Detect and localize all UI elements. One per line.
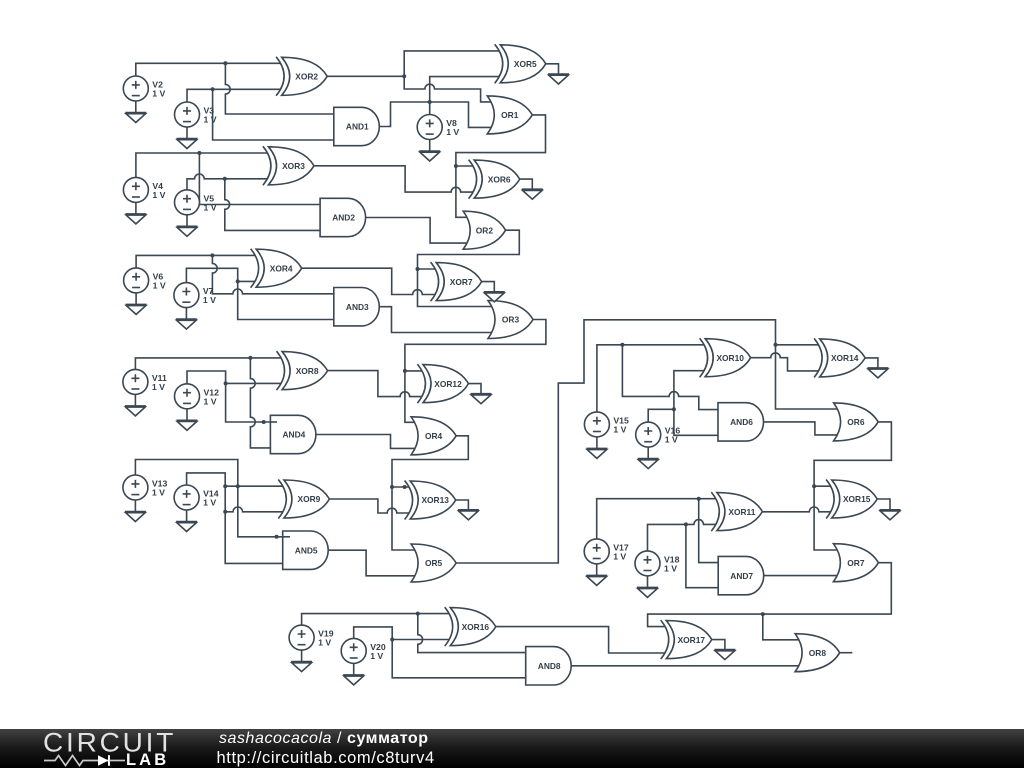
junction dot OR4 net [390,485,394,489]
wire junction to AND1 input B [213,89,334,140]
wire junction to AND1 input A (hops over V3 wire) [225,63,333,114]
OR gate OR4 [411,417,456,455]
wire junction down to AND8 input A (hops over V20 net) [418,614,526,653]
ground (V7) [176,319,197,329]
wire V11 top to XOR8 input A [135,358,281,370]
junction dot V3 net [211,87,215,91]
wire XOR11 output to XOR15 input B (hops over OR6 net) [762,507,830,512]
wire AND1 output to OR1 input B [379,102,491,127]
junction dot XOR2 output [402,74,406,78]
wire junction down to AND5 input B [225,512,283,564]
voltage source V13 (1 V) [123,475,168,500]
voltage source V6 (1 V) [124,268,166,293]
wire junction down to OR4 input A [405,371,415,422]
ground (V6) [126,304,147,314]
svg-text:AND1: AND1 [346,122,369,132]
wire XOR8 output to XOR12 input B (hops over OR3 net) [328,371,422,397]
svg-text:XOR15: XOR15 [843,494,871,504]
voltage source V15 (1 V) [584,412,629,437]
junction dot AND5 input A terminal [275,535,279,539]
AND gate AND7 [718,556,763,594]
wire V16 top to junction [648,409,674,422]
ground (V17) [586,575,607,585]
wire V2 top to XOR2 input A [136,63,281,76]
svg-text:AND2: AND2 [332,213,355,223]
svg-text:XOR5: XOR5 [514,59,537,69]
wire junction to XOR9 input B (hops over V13 net) [225,507,283,512]
svg-text:1 V: 1 V [152,190,165,200]
wire XOR16 output to XOR17 input B [496,627,665,653]
OR gate OR5 [411,544,456,582]
ground (XOR12 output) [471,394,492,404]
svg-text:OR7: OR7 [847,558,865,568]
svg-text:AND4: AND4 [282,430,305,440]
ground (V19) [291,662,312,672]
ground (XOR13 output) [458,510,479,520]
svg-text:OR5: OR5 [425,558,443,568]
OR gate OR6 [834,403,879,441]
AND gate AND8 [526,647,572,685]
XOR gate XOR8 [277,351,328,390]
svg-text:1 V: 1 V [665,435,678,445]
wire XOR14 output to ground [865,358,878,368]
ground (XOR7 output) [484,292,505,302]
wire OR5 output up to right section [456,320,775,563]
svg-text:XOR16: XOR16 [462,622,490,632]
svg-text:AND7: AND7 [730,571,753,581]
wire V18 top to XOR11 input B (hops over V17 net) [648,520,716,551]
ground (V2) [125,113,146,123]
wire V8 bottom to ground [429,140,431,152]
svg-text:1 V: 1 V [664,563,677,573]
AND gate AND3 [334,288,379,326]
XOR gate XOR2 [276,57,327,96]
wire XOR2 output to XOR5 input A [327,75,404,77]
OR gate OR1 [487,96,532,134]
svg-text:XOR4: XOR4 [270,263,293,273]
wire junction down to AND5 input A [238,486,290,537]
footer bar [0,729,1024,768]
ground (V11) [125,406,146,416]
XOR gate XOR4 [251,249,302,288]
wire junction down to AND6 input B [674,409,718,435]
AND gate AND6 [718,403,764,441]
ground (XOR17 output) [714,650,735,660]
wire junction down to AND6 input A (hops over V16 net) [622,345,718,410]
wire AND5 output to OR5 input B [328,550,415,576]
svg-text:XOR2: XOR2 [295,72,318,82]
wire V5 bottom to ground [186,215,188,227]
wire V15 top to XOR10 input A [597,345,704,412]
ground (V8) [419,151,440,161]
junction dot V12 net [224,381,228,385]
junction dot OR2 net at XOR7 input [416,267,420,271]
wire junction to XOR16 input B [392,639,449,641]
svg-text:XOR7: XOR7 [450,277,473,287]
schematic URL [217,749,435,768]
author / title text [219,730,429,748]
svg-text:OR2: OR2 [476,225,494,235]
wire junction down to OR7 input A [814,486,837,550]
junction dot V15 net [620,343,624,347]
svg-text:XOR14: XOR14 [831,353,859,363]
voltage source V19 (1 V) [289,625,334,650]
wire V8 junction up to XOR5 input B [430,77,500,115]
ground (V3) [177,139,198,149]
junction dot carry net at XOR14 [774,343,778,347]
svg-text:1 V: 1 V [204,115,217,125]
wire junction down to OR8 input A [763,614,799,640]
wire OR1 output down-left to XOR6 input A [456,115,546,166]
XOR gate XOR17 [661,620,712,659]
junction dot V7 net [236,279,240,283]
ground (XOR15 output) [880,510,901,520]
voltage source V4 (1 V) [123,177,165,202]
svg-text:1 V: 1 V [153,280,166,290]
CircuitLab logo waveform glyph (resistor + diode) [42,752,132,768]
wire down to OR1 input A (hops over V8 wire) [404,76,491,102]
wire OR4 output around to XOR13 input A [392,436,468,487]
wire XOR5 output to ground [546,64,559,74]
wire junction down to OR2 input A [456,166,467,217]
wire V17 top to XOR11 input A [597,499,716,539]
wire XOR7 output to ground [482,282,495,292]
ground (V12) [177,420,198,430]
ground (V5) [177,226,198,236]
svg-text:1 V: 1 V [203,498,216,508]
ground (V15) [586,448,607,458]
OR gate OR7 [833,544,878,582]
wire OR8 output [840,652,853,654]
XOR gate XOR13 [405,481,456,520]
ground (V4) [125,214,146,224]
wire junction down to AND4 input A [226,383,277,422]
OR gate OR8 [795,634,840,672]
wire junction to XOR8 input B [226,382,281,384]
wire junction down to AND2 input A [199,153,320,205]
svg-text:OR3: OR3 [502,315,520,325]
XOR gate XOR7 [431,262,482,301]
wire OR6 output around to XOR15 input A [814,422,891,486]
ground (V13) [125,512,146,522]
wire V20 top to junction [354,627,393,640]
svg-text:AND3: AND3 [346,302,369,312]
CircuitLab logo text LAB [126,751,169,768]
AND gate AND5 [283,531,329,569]
voltage source V20 (1 V) [341,638,386,663]
wire V12 bottom to ground [186,409,188,421]
XOR gate XOR11 [711,492,762,531]
svg-text:1 V: 1 V [204,202,217,212]
junction dot V4 net [197,151,201,155]
wire V5 top to XOR3 input B (hops over V4 wire) [187,174,267,190]
svg-text:OR4: OR4 [425,431,443,441]
voltage source V5 (1 V) [175,190,217,215]
junction dot OR1 net at XOR6 input [454,164,458,168]
wire XOR3 output to XOR6 input B (hops over OR1 net) [314,166,473,192]
wire AND7 output to OR7 input B [764,575,837,577]
wire AND4 output to OR4 input B [316,435,415,449]
OR gate OR2 [463,211,505,249]
ground (V14) [176,522,197,532]
voltage source V18 (1 V) [635,551,680,576]
AND gate AND2 [320,198,366,236]
svg-text:XOR9: XOR9 [297,494,320,504]
svg-text:1 V: 1 V [613,551,626,561]
wire AND2 output to OR2 input B [366,218,467,244]
svg-text:1 V: 1 V [203,295,216,305]
wire V19 top to XOR16 input A [302,614,450,626]
XOR gate XOR12 [417,364,468,403]
junction dot V16 net [672,407,676,411]
junction dot V14 net lower [223,510,227,514]
AND gate AND4 [270,415,316,453]
junction dot V18 net [684,522,688,526]
XOR gate XOR14 [814,338,865,377]
voltage source V2 (1 V) [123,76,165,101]
wire junction to XOR14 input A [776,344,819,346]
wire AND8 output to OR8 input B [571,665,799,667]
wire junction down to AND3 input A (hops over V7 wire and V7 net) [212,255,333,293]
ground (V16) [638,459,659,469]
wire XOR9 output to XOR13 input B (hops over OR4 net) [329,499,409,513]
ground (V20) [343,675,364,685]
XOR gate XOR5 [495,44,546,83]
wire stub AND4 input A terminal [270,421,277,423]
wire V14 bottom to ground [186,510,188,522]
wire junction to XOR9 input A [225,485,283,487]
svg-text:1 V: 1 V [152,89,165,99]
wire V20 bottom to ground [353,663,355,675]
junction dot V6 net [210,253,214,257]
wire junction down to AND2 input B (hops over V4-AND2 wire) [225,179,320,231]
junction dot V14 net upper [223,484,227,488]
junction dot V17 net [697,497,701,501]
wire V13 bottom to ground [134,500,136,512]
wire V14 top to junction [187,473,226,486]
svg-text:XOR17: XOR17 [678,635,706,645]
junction dot V11 net [248,356,252,360]
XOR gate XOR6 [469,160,520,199]
svg-text:XOR3: XOR3 [282,161,305,171]
OR gate OR3 [488,301,533,339]
wire junction down to OR5 input A [392,487,415,550]
wire V3 top to XOR2 input B [187,89,281,102]
svg-text:1 V: 1 V [204,396,217,406]
ground (XOR6 output) [522,189,543,199]
junction dot OR6 net at XOR15 [812,484,816,488]
wire XOR15 output to ground [877,499,890,510]
voltage source V7 (1 V) [174,283,216,308]
voltage source V8 (1 V) [417,115,459,140]
wire XOR6 output to ground [520,179,533,189]
wire junction down to AND8 input B [392,640,526,678]
wire V11 bottom to ground [134,394,136,406]
wire V13 top to junction [135,460,237,487]
wire V6 top to XOR4 input A [136,255,255,268]
wire XOR12 output to ground [469,384,482,394]
svg-text:XOR10: XOR10 [716,353,744,363]
junction dot OR7 net [761,612,765,616]
XOR gate XOR9 [278,480,329,519]
wire junction down to AND7 input A [699,499,719,563]
svg-text:OR6: OR6 [847,417,865,427]
svg-text:XOR12: XOR12 [434,379,462,389]
wire junction down to OR3 input A [418,269,492,307]
AND gate AND1 [334,107,380,145]
wire XOR17 output to ground [712,640,725,650]
wire V15 bottom to ground [596,437,598,449]
junction dot AND4 input A terminal [262,420,266,424]
junction dot V2 net [223,61,227,65]
voltage source V11 (1 V) [123,369,167,394]
wire OR3 output around to XOR12 input A [405,320,546,371]
wire XOR13 output to ground [456,500,469,510]
wire V4 top to XOR3 input A [136,153,268,177]
wire V7 top to XOR4 input B [186,268,255,282]
wire V3 bottom to ground [186,127,188,139]
svg-text:AND5: AND5 [295,545,318,555]
wire AND6 output to OR6 input B [763,422,837,435]
wire V4 bottom to ground [135,202,137,214]
junction dot V20 net [390,638,394,642]
svg-text:XOR6: XOR6 [488,174,511,184]
svg-text:1 V: 1 V [152,488,165,498]
wire V19 bottom to ground [301,650,303,662]
wire up to XOR5 input A [404,51,499,76]
svg-text:1 V: 1 V [446,127,459,137]
svg-text:1 V: 1 V [318,638,331,648]
wire XOR10 output to XOR14 input B (hops over carry net) [751,353,819,371]
wire XOR4 output to XOR7 input B (hops over OR2 net) [302,268,435,294]
wire AND3 output to OR3 input B [379,307,491,333]
XOR gate XOR16 [445,607,496,646]
wire V17 bottom to ground [596,564,598,576]
ground (V18) [637,587,658,597]
wire V16 bottom to ground [647,447,649,459]
wire V7 bottom to ground [185,308,187,320]
svg-text:1 V: 1 V [613,424,626,434]
wire junction down to AND3 input B [238,281,334,319]
svg-text:AND6: AND6 [730,417,753,427]
wire junction down [224,486,226,512]
junction dot V5 net [223,177,227,181]
svg-text:OR1: OR1 [501,110,519,120]
svg-text:OR8: OR8 [809,648,827,658]
XOR gate XOR10 [700,338,751,377]
CircuitLab logo text CIRCUIT [43,727,176,758]
junction dot V19 net [416,612,420,616]
svg-text:XOR8: XOR8 [296,366,319,376]
svg-text:XOR11: XOR11 [728,507,755,517]
wire OR2 output around to XOR7 input A [418,230,520,269]
svg-text:1 V: 1 V [152,382,165,392]
voltage source V14 (1 V) [174,485,219,510]
junction dot XOR13 input A terminal [403,485,407,489]
junction dot V8 net [428,100,432,104]
svg-text:AND8: AND8 [538,661,561,671]
wire junction down to AND4 input B (hops over V12 wires) [250,358,270,448]
wire junction up to XOR10 input B [674,371,704,410]
wire stub AND5 input A terminal [283,536,290,538]
voltage source V3 (1 V) [175,102,217,127]
wire junction down to AND7 input B [686,524,718,587]
wire V18 bottom to ground [647,576,649,588]
svg-text:XOR13: XOR13 [421,495,449,505]
wire junction down to OR6 input A [776,345,838,409]
svg-text:1 V: 1 V [370,651,383,661]
wire V6 bottom to ground [135,293,137,305]
voltage source V12 (1 V) [175,384,220,409]
ground (XOR5 output) [548,74,569,84]
wire OR7 output down-left to XOR17 input A [648,563,892,627]
junction dot V13 net [236,484,240,488]
voltage source V16 (1 V) [636,422,681,447]
XOR gate XOR15 [826,480,877,519]
wire V12 top to junction [187,371,226,384]
ground (XOR14 output) [867,368,888,378]
wire V2 bottom to ground [135,101,137,113]
XOR gate XOR3 [263,146,314,185]
voltage source V17 (1 V) [584,539,629,564]
junction dot OR3 net at XOR12 input [403,369,407,373]
